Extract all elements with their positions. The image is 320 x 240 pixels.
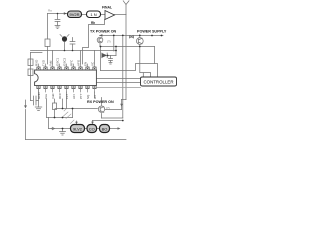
svg-text:(?): (?) [106,106,110,110]
svg-text:RFC: RFC [58,92,62,99]
svg-text:OSC1: OSC1 [56,57,60,66]
svg-text:RXD: RXD [35,59,39,66]
svg-text:CONTROLLER: CONTROLLER [143,80,173,85]
svg-text:EN: EN [84,62,88,66]
svg-text:CO: CO [89,127,95,132]
svg-text:RX: RX [93,95,97,99]
svg-text:SQ: SQ [86,94,90,99]
svg-text:9V2R: 9V2R [69,12,79,17]
svg-text:AFI: AFI [72,94,76,99]
svg-text:PTT: PTT [79,93,83,99]
svg-text:1 N: 1 N [90,12,96,17]
svg-text:OSC2: OSC2 [63,57,67,66]
svg-text:Rh: Rh [91,21,95,25]
svg-text:Ra: Ra [48,9,52,13]
svg-text:TXD: TXD [42,59,46,66]
svg-text:POWER SUPPLY: POWER SUPPLY [137,30,167,34]
svg-text:GND: GND [37,92,41,100]
svg-text:TX POWER ON: TX POWER ON [90,30,117,34]
svg-text:9LV2: 9LV2 [73,127,83,132]
svg-text:(?): (?) [107,40,111,44]
svg-text:FINAL: FINAL [102,5,112,9]
svg-text:RFC: RFC [70,59,74,66]
svg-text:FLT: FLT [65,94,69,99]
svg-text:BO: BO [102,127,108,132]
svg-text:Vss: Vss [44,93,48,99]
svg-text:Vdd: Vdd [49,60,53,66]
svg-text:AFO: AFO [77,59,81,66]
svg-text:RX POWER ON: RX POWER ON [87,100,114,104]
svg-text:Vdd: Vdd [51,93,55,99]
